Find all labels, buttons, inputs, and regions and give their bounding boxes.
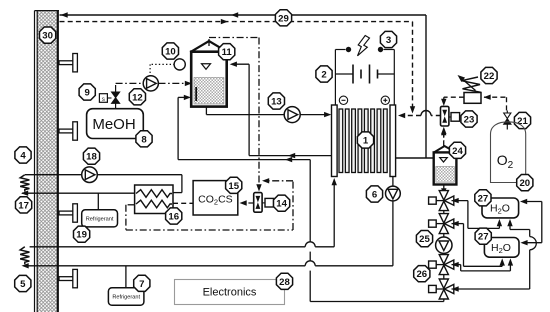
wire manifold 3-4	[443, 275, 445, 279]
heater 17 zigzag	[20, 175, 29, 192]
label 28	[276, 273, 292, 289]
svg-text:27: 27	[478, 232, 489, 243]
battery 2	[353, 65, 378, 84]
wire hx-co2cs dashed	[173, 202, 193, 204]
svg-text:Refrigerant: Refrigerant	[86, 217, 114, 223]
label 8	[136, 131, 152, 147]
svg-text:15: 15	[228, 181, 239, 192]
svg-text:16: 16	[168, 212, 179, 223]
label 27a	[475, 190, 491, 206]
label 9	[79, 84, 95, 100]
svg-text:22: 22	[484, 71, 495, 82]
valve V4	[429, 279, 454, 299]
valve 23	[441, 106, 460, 126]
valve V2	[429, 214, 454, 234]
wall anchor 4	[59, 269, 77, 287]
tank H2O lower	[484, 238, 519, 258]
wire refrigerant19 branch	[97, 193, 99, 210]
svg-text:13: 13	[271, 97, 282, 108]
tank 11	[190, 41, 228, 107]
label 1	[357, 132, 373, 148]
label 7	[134, 275, 150, 291]
wire MeOH dashdot	[116, 81, 192, 86]
svg-text:23: 23	[464, 115, 475, 126]
svg-text:24: 24	[452, 146, 463, 157]
wall anchor 2	[59, 122, 77, 140]
svg-text:3: 3	[386, 35, 391, 46]
wire tanks right feed	[520, 199, 542, 246]
box refrigerant 7	[108, 288, 143, 306]
valve 9 stem	[115, 83, 117, 108]
wire V4-tank1	[452, 219, 537, 292]
wire battery left	[335, 50, 353, 106]
wire humidifier drain	[441, 185, 446, 198]
valve V3	[429, 255, 454, 275]
pump 12	[143, 76, 158, 91]
label 19	[74, 226, 90, 242]
hx 16 box	[135, 185, 173, 214]
svg-text:20: 20	[519, 178, 530, 189]
wire humidifier-valve23 dashed	[441, 128, 446, 146]
pump 6	[386, 186, 401, 201]
label 6	[366, 186, 382, 202]
svg-text:25: 25	[419, 234, 430, 245]
wire V3-tank2	[452, 258, 514, 271]
wall anchor 3	[59, 204, 77, 222]
wire boundary dashdot	[126, 178, 293, 230]
wall outer line	[34, 11, 36, 312]
label 20	[517, 175, 533, 191]
label 17	[16, 197, 32, 213]
wire battery right	[378, 50, 395, 106]
wire 14-co2cs dashed	[240, 200, 254, 205]
label 29	[275, 10, 291, 26]
wire air dashed vertical	[410, 22, 415, 114]
label 27b	[475, 228, 491, 244]
wire V2-tank2	[452, 221, 505, 266]
svg-text:12: 12	[132, 92, 143, 103]
svg-text:9: 9	[85, 88, 90, 99]
label 15	[226, 177, 242, 193]
wire manifold 1-2	[443, 211, 445, 214]
svg-text:21: 21	[517, 116, 528, 127]
label 10	[162, 43, 178, 59]
svg-text:s: s	[102, 97, 105, 103]
svg-text:5: 5	[20, 279, 26, 290]
humidifier 24	[433, 146, 457, 185]
wire vent solid top	[60, 12, 427, 17]
valve 21	[504, 111, 511, 130]
box refrigerant 19	[82, 210, 118, 227]
svg-text:19: 19	[76, 230, 87, 241]
label 21	[514, 112, 530, 128]
svg-text:MeOH: MeOH	[92, 116, 135, 133]
wire refrigerant7 branch	[125, 266, 127, 288]
svg-text:Refrigerant: Refrigerant	[112, 295, 140, 301]
svg-text:7: 7	[139, 279, 144, 290]
pump 18	[82, 167, 98, 183]
regulator 22 spring	[458, 75, 482, 92]
stack 1 cells	[339, 109, 387, 173]
tank H2O upper	[482, 198, 519, 218]
label 4	[15, 147, 31, 163]
wire hx return	[21, 191, 135, 196]
wire reg-valve23 dashed	[441, 97, 464, 106]
label 18	[83, 148, 99, 164]
heater 5 zigzag	[20, 247, 29, 264]
label 5	[15, 275, 31, 291]
svg-text:28: 28	[279, 277, 290, 288]
label 14	[274, 195, 290, 211]
wire cathode feed dashed	[398, 111, 441, 119]
tank MeOH 8	[87, 109, 144, 139]
label 24	[449, 142, 465, 158]
box electronics 28	[175, 280, 285, 305]
svg-text:17: 17	[18, 200, 29, 211]
wire air dashed top	[60, 19, 413, 24]
label 2	[316, 66, 332, 82]
regulator 14	[254, 193, 274, 213]
svg-text:1: 1	[363, 136, 369, 147]
sensor wire dotted	[150, 64, 175, 75]
wire water return B	[178, 95, 310, 163]
wire valve23 bottom arrow	[441, 127, 446, 141]
label 25	[416, 231, 432, 247]
svg-text:18: 18	[86, 152, 97, 163]
svg-text:8: 8	[141, 134, 147, 145]
hx 16 coil top	[136, 190, 172, 198]
wall hatched band	[35, 11, 60, 312]
wire hx supply	[25, 175, 182, 195]
terminal plus	[381, 96, 389, 104]
sensor 10	[174, 59, 185, 70]
wire o2 dashed	[484, 95, 507, 114]
regulator 22 box	[464, 93, 481, 104]
tank O2 20	[491, 122, 526, 183]
terminal minus	[339, 96, 347, 104]
label 22	[481, 67, 497, 83]
svg-text:11: 11	[222, 47, 233, 58]
label 26	[414, 266, 430, 282]
pump 13	[284, 107, 300, 123]
label 13	[268, 93, 284, 109]
label 3	[380, 31, 396, 47]
svg-text:Electronics: Electronics	[203, 287, 257, 299]
wall anchor 1	[59, 54, 77, 72]
spark bolt	[358, 36, 370, 56]
label 16	[166, 208, 182, 224]
wire cathode out	[396, 157, 434, 159]
svg-text:26: 26	[416, 269, 427, 280]
svg-text:4: 4	[20, 151, 26, 162]
svg-text:29: 29	[278, 13, 289, 24]
valve V1	[429, 191, 454, 211]
wire manifold pump-3	[443, 253, 445, 254]
svg-text:2: 2	[321, 70, 326, 81]
box CO2CS 15	[193, 181, 238, 215]
wire stack coolant return	[22, 177, 393, 269]
wire anode feed	[206, 107, 331, 118]
wire anode return A	[230, 62, 332, 159]
label 23	[461, 111, 477, 127]
label 30	[40, 27, 56, 43]
svg-text:10: 10	[165, 47, 176, 58]
stack 1 right plate	[390, 105, 396, 177]
wire water return vertical	[310, 160, 444, 302]
svg-text:27: 27	[478, 193, 489, 204]
label 11	[219, 44, 235, 60]
svg-text:6: 6	[372, 190, 377, 201]
svg-text:30: 30	[42, 31, 53, 42]
wire V1-tank1	[452, 198, 503, 229]
wire stack coolant supply	[30, 178, 337, 247]
wire manifold 2-pump	[443, 234, 445, 237]
wire CO2 dashdot tank top	[209, 38, 262, 192]
wire vent vertical right	[425, 15, 427, 158]
svg-text:14: 14	[276, 199, 287, 210]
pump 25	[436, 237, 452, 253]
stack 1 left plate	[332, 105, 338, 177]
hx 16 coil bottom	[136, 200, 172, 208]
label 12	[129, 89, 145, 105]
valve 9	[99, 92, 119, 103]
switch contacts 3	[335, 47, 394, 52]
